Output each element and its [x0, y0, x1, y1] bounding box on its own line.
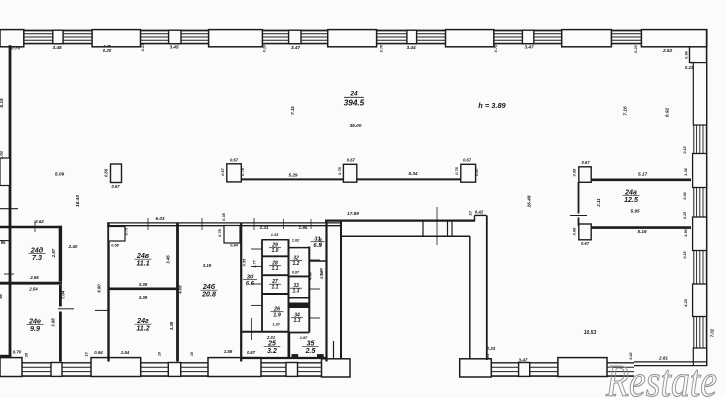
- left wall pier box: [0, 158, 10, 186]
- room 24g door dash in left wall: [95, 309, 109, 311]
- top band outer edge line: [0, 30, 707, 32]
- svg-text:0.58: 0.58: [111, 243, 119, 248]
- svg-text:3.47: 3.47: [519, 358, 528, 363]
- top wall pier 1: [0, 30, 24, 47]
- svg-text:1.59: 1.59: [224, 349, 233, 354]
- bottom wall pier L1: [0, 358, 22, 377]
- left wall door tick upper: [0, 208, 18, 210]
- svg-text:0.70: 0.70: [11, 45, 21, 50]
- door threshold black mark right: [317, 354, 324, 358]
- rooms 25/35 divider wall: [288, 333, 290, 359]
- svg-text:16.48: 16.48: [527, 195, 533, 207]
- svg-text:0.20: 0.20: [633, 44, 638, 52]
- top wall pier 3: [92, 30, 140, 47]
- column 1 standalone: [111, 164, 122, 183]
- svg-text:0.70: 0.70: [13, 350, 22, 355]
- svg-text:7.11: 7.11: [290, 106, 296, 115]
- column 3: [343, 164, 356, 182]
- top band inner edge line: [0, 43, 641, 45]
- svg-text:1.97: 1.97: [300, 335, 308, 340]
- right stall box top wall: [289, 247, 310, 249]
- svg-text:3.45: 3.45: [166, 255, 171, 264]
- void inner top wall: [341, 235, 470, 237]
- svg-text:2.55: 2.55: [29, 275, 39, 280]
- svg-text:10.53: 10.53: [584, 330, 597, 336]
- svg-text:3.39: 3.39: [139, 295, 148, 300]
- svg-text:7.16: 7.16: [623, 106, 629, 116]
- beam line between columns 2-3: [241, 178, 343, 180]
- svg-text:3.44: 3.44: [406, 45, 416, 50]
- watermark Restate: [606, 354, 717, 398]
- svg-text:0.23: 0.23: [685, 65, 694, 70]
- left stall box top wall: [262, 239, 289, 241]
- column 2: [227, 164, 242, 182]
- svg-text:11.1: 11.1: [136, 260, 149, 268]
- bottom band - porch foot block right: [460, 359, 492, 377]
- room 24a top wall: [591, 179, 691, 182]
- svg-text:4.29: 4.29: [683, 298, 688, 307]
- svg-text:0.23: 0.23: [140, 43, 145, 51]
- svg-text:2.5: 2.5: [305, 348, 316, 355]
- room 24d/24e divider wall: [0, 282, 62, 285]
- svg-text:35.00: 35.00: [349, 123, 361, 129]
- rooms 24v/24g left wall: [107, 223, 109, 362]
- svg-text:2.11: 2.11: [596, 198, 601, 208]
- svg-text:0.67: 0.67: [581, 241, 590, 246]
- svg-text:5.48: 5.48: [319, 267, 324, 275]
- top wall pier 10: [522, 30, 533, 44]
- svg-text:5.34: 5.34: [409, 171, 418, 176]
- right outer wall line: [706, 30, 708, 366]
- right band pier 1: [693, 154, 707, 188]
- svg-text:6.15: 6.15: [0, 98, 4, 108]
- svg-text:0.2: 0.2: [486, 354, 490, 359]
- column 5 (24a top-left): [579, 167, 591, 183]
- top wall pier 7: [328, 30, 377, 47]
- right band pier 2: [693, 217, 707, 251]
- bottom-right thin wall to corner: [634, 361, 707, 363]
- right band pier 3: [693, 284, 707, 317]
- left stall box left wall: [261, 239, 263, 332]
- svg-text:0.15: 0.15: [683, 211, 687, 219]
- svg-text:3.19: 3.19: [203, 263, 212, 268]
- right stall box right wall: [308, 247, 310, 333]
- bottom wall pier R2: [558, 358, 607, 377]
- top wall pier 2: [53, 30, 63, 44]
- void left wall inner line near foot: [333, 341, 335, 359]
- svg-text:1.1: 1.1: [272, 285, 279, 291]
- bottom band - porch foot block left: [322, 359, 351, 377]
- svg-text:1.90: 1.90: [683, 228, 688, 236]
- svg-text:0.88: 0.88: [572, 168, 577, 176]
- wall stub at bottom-left of room 24e: [0, 355, 11, 358]
- left wall tick lower: [0, 240, 10, 242]
- room 24a bottom wall: [591, 226, 691, 229]
- svg-text:1.05: 1.05: [318, 237, 323, 245]
- svg-text:0.42: 0.42: [475, 210, 484, 215]
- svg-text:0.75: 0.75: [124, 227, 129, 235]
- svg-text:5.17: 5.17: [638, 172, 648, 177]
- beam line between columns 3-4: [357, 178, 461, 180]
- bottom wall pier L4: [168, 363, 180, 377]
- svg-text:0.94: 0.94: [94, 350, 103, 355]
- svg-text:0.86: 0.86: [104, 168, 109, 177]
- svg-text:0.87: 0.87: [292, 271, 300, 275]
- svg-text:1.82: 1.82: [0, 150, 4, 159]
- bottom wall pier L3: [91, 358, 141, 377]
- room 24e door dash: [58, 308, 74, 310]
- bottom wall band - left section piers and windows: [22, 366, 51, 368]
- svg-text:0.78: 0.78: [217, 228, 222, 236]
- svg-text:7.02: 7.02: [710, 328, 715, 337]
- svg-text:0.20: 0.20: [103, 48, 112, 53]
- svg-text:3.48: 3.48: [52, 45, 62, 50]
- room 24d top wall: [0, 226, 62, 228]
- svg-text:394.5: 394.5: [344, 99, 365, 108]
- bottom wall pier L2: [51, 363, 62, 377]
- room 24a left wall with door gap: [578, 182, 580, 214]
- svg-text:1.33: 1.33: [271, 232, 279, 237]
- left interior wall vertical: [9, 45, 12, 358]
- svg-text:0.88: 0.88: [572, 227, 577, 235]
- room 31 bottom wall: [309, 260, 326, 262]
- top wall pier 5: [209, 30, 263, 47]
- void top wall step to right corner: [474, 215, 476, 221]
- svg-text:1.2: 1.2: [293, 261, 300, 267]
- svg-text:3.45: 3.45: [169, 45, 179, 50]
- svg-text:3.98: 3.98: [51, 318, 56, 327]
- svg-text:6.6: 6.6: [246, 281, 255, 287]
- svg-text:0.67: 0.67: [230, 158, 239, 163]
- dark duct band in right box: [289, 303, 309, 309]
- svg-text:3.47: 3.47: [291, 45, 301, 50]
- svg-text:16.40: 16.40: [75, 195, 81, 207]
- svg-text:0.78: 0.78: [454, 166, 459, 174]
- svg-text:1.95: 1.95: [299, 225, 308, 230]
- svg-text:5.09: 5.09: [55, 172, 65, 178]
- svg-text:0.70: 0.70: [493, 44, 498, 52]
- svg-text:1.3: 1.3: [294, 318, 301, 324]
- extension line through void top wall: [436, 207, 438, 245]
- svg-text:11.2: 11.2: [136, 325, 149, 333]
- svg-text:12.5: 12.5: [624, 196, 639, 204]
- svg-text:0.35: 0.35: [221, 212, 226, 220]
- svg-text:2.87: 2.87: [51, 248, 56, 258]
- opening jambs on void top wall: [422, 221, 424, 237]
- svg-text:17.89: 17.89: [347, 211, 359, 216]
- room 34 bottom wall: [289, 332, 310, 334]
- svg-text:6.92: 6.92: [665, 108, 671, 118]
- svg-text:2.62: 2.62: [34, 219, 44, 224]
- stall dividers left box: [262, 255, 289, 257]
- void inner right wall: [469, 236, 471, 359]
- room 24a door dash: [570, 215, 587, 217]
- right band solid wall top section: [693, 63, 706, 125]
- svg-text:24: 24: [349, 91, 358, 98]
- left stall box right wall: [288, 239, 290, 358]
- void outer top wall: [325, 220, 475, 222]
- svg-text:0.15: 0.15: [683, 145, 687, 153]
- svg-text:9.9: 9.9: [30, 324, 40, 333]
- pier at 24v top-left corner: [109, 227, 126, 242]
- svg-text:1.0: 1.0: [272, 248, 279, 254]
- bottom wall band - right section: [491, 366, 518, 368]
- svg-text:1.20: 1.20: [272, 323, 280, 327]
- svg-text:1.9: 1.9: [273, 313, 281, 319]
- toilet block right wall: [325, 222, 327, 362]
- svg-text:h = 3.89: h = 3.89: [478, 101, 506, 110]
- svg-text:0.36: 0.36: [683, 191, 687, 199]
- top band window glazing lines: [24, 33, 53, 35]
- svg-text:6.03: 6.03: [156, 216, 165, 221]
- svg-text:2.31: 2.31: [266, 335, 276, 340]
- bottom wall pier L6: [286, 363, 298, 377]
- svg-text:1.1: 1.1: [272, 266, 279, 272]
- top wall pier 8: [407, 30, 417, 44]
- svg-text:1.82: 1.82: [292, 238, 300, 243]
- svg-text:0.70: 0.70: [379, 44, 384, 52]
- svg-text:1.3: 1.3: [293, 289, 300, 295]
- wall between 24g and 24b: [176, 223, 179, 362]
- svg-text:0.96: 0.96: [684, 50, 689, 58]
- svg-text:0.15: 0.15: [683, 250, 687, 258]
- top-right wall step: [689, 46, 691, 63]
- room 24d/24e right wall: [59, 226, 62, 282]
- svg-text:2.54: 2.54: [28, 287, 38, 292]
- svg-text:98: 98: [0, 294, 3, 299]
- svg-text:0.87: 0.87: [247, 350, 256, 355]
- bottom wall pier R1: [519, 363, 530, 377]
- svg-text:0.67: 0.67: [220, 167, 225, 175]
- svg-text:1.54: 1.54: [121, 350, 130, 355]
- svg-text:5.16: 5.16: [637, 229, 647, 234]
- svg-text:0.55: 0.55: [242, 258, 247, 266]
- top wall pier 4: [169, 30, 181, 44]
- svg-text:2.40: 2.40: [68, 244, 78, 249]
- stall doors left box (dashes): [251, 248, 262, 250]
- column 6 (24a bottom-left): [579, 224, 591, 240]
- right band window glazing (vertical): [696, 125, 698, 154]
- stall 26 bottom wall: [241, 331, 288, 333]
- svg-text:0.23: 0.23: [487, 346, 496, 351]
- svg-text:6.90: 6.90: [97, 284, 102, 293]
- svg-text:5.95: 5.95: [630, 209, 640, 214]
- svg-text:0.67: 0.67: [111, 184, 120, 189]
- rooms 24v/24g divider wall: [109, 287, 179, 290]
- svg-text:3.47: 3.47: [524, 44, 534, 49]
- top wall pier 11: [562, 30, 612, 47]
- svg-text:3.38: 3.38: [169, 321, 174, 330]
- svg-text:4.08: 4.08: [178, 285, 183, 295]
- svg-text:1.77: 1.77: [252, 259, 257, 267]
- door threshold black mark left: [292, 354, 299, 358]
- tick on room 24d top wall: [34, 221, 36, 233]
- right band solid wall bottom corner: [693, 348, 706, 366]
- svg-text:0.67: 0.67: [463, 158, 472, 163]
- svg-text:0.84: 0.84: [230, 243, 238, 248]
- top wall pier 6: [289, 30, 301, 44]
- middle rooms top wall (double line): [107, 222, 341, 224]
- void right outer wall: [486, 215, 488, 360]
- svg-text:20.8: 20.8: [201, 291, 216, 299]
- svg-text:7.04: 7.04: [61, 290, 66, 299]
- tick into room 25: [251, 318, 253, 340]
- ticks on toilet block top wall: [253, 218, 255, 230]
- svg-text:0.79: 0.79: [240, 167, 245, 175]
- toilet block left wall: [240, 223, 242, 362]
- svg-text:7.3: 7.3: [32, 253, 42, 262]
- rooms 25/35 bottom walls: [241, 357, 326, 359]
- svg-text:0.78: 0.78: [337, 166, 342, 174]
- left wall tick at 274: [4, 273, 14, 275]
- stall dividers right box: [289, 275, 310, 277]
- svg-text:0.67: 0.67: [581, 160, 590, 165]
- ticks on middle top wall: [147, 218, 149, 230]
- svg-text:2.52: 2.52: [662, 48, 673, 53]
- svg-text:95: 95: [1, 240, 6, 245]
- svg-text:4.40: 4.40: [308, 271, 313, 280]
- top wall pier 9: [446, 30, 494, 47]
- pier at 24b top-right: [224, 226, 240, 244]
- bottom wall pier L5: [208, 358, 261, 377]
- room 24e right wall with door gap: [59, 285, 62, 307]
- svg-text:0.87: 0.87: [474, 167, 479, 175]
- svg-text:1.36: 1.36: [683, 167, 688, 175]
- column 4: [461, 164, 476, 182]
- svg-text:0.20: 0.20: [262, 44, 267, 52]
- svg-text:2.31: 2.31: [259, 225, 269, 230]
- svg-text:3.2: 3.2: [267, 348, 277, 355]
- svg-text:3.39: 3.39: [139, 282, 148, 287]
- svg-text:5.29: 5.29: [289, 173, 298, 178]
- stall doors right box (dashes): [309, 259, 320, 261]
- top wall pier 12: [641, 30, 706, 47]
- svg-text:0.67: 0.67: [347, 158, 356, 163]
- void left wall: [340, 222, 342, 359]
